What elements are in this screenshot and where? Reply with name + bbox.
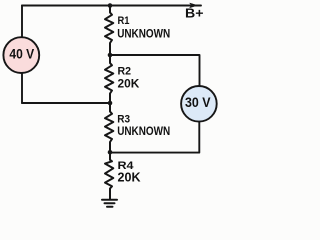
svg-text:UNKNOWN: UNKNOWN bbox=[117, 124, 170, 138]
battery V2 30V bbox=[181, 86, 217, 122]
wire 30V bottom to node C wire bbox=[110, 122, 199, 153]
node B junction bbox=[108, 101, 113, 106]
node A junction bbox=[108, 53, 113, 58]
wire node A to 30V top bbox=[110, 55, 200, 86]
wire left vertical top bbox=[21, 6, 23, 38]
ground bbox=[102, 200, 117, 207]
resistor R2 bbox=[105, 55, 113, 103]
resistor R3 bbox=[105, 103, 113, 152]
svg-text:40 V: 40 V bbox=[9, 45, 34, 61]
svg-text:30 V: 30 V bbox=[185, 94, 211, 110]
svg-text:R1: R1 bbox=[118, 15, 130, 27]
node C junction bbox=[108, 150, 113, 155]
wire top rail B+ bbox=[22, 5, 201, 7]
node top junction bbox=[108, 3, 113, 8]
battery V1 40V bbox=[3, 37, 39, 73]
svg-text:UNKNOWN: UNKNOWN bbox=[117, 27, 170, 41]
svg-text:20K: 20K bbox=[118, 170, 142, 185]
resistor R4 bbox=[105, 152, 113, 199]
arrowhead B+ bbox=[190, 3, 198, 8]
svg-text:20K: 20K bbox=[118, 77, 140, 91]
wire left vertical bottom bbox=[21, 74, 23, 104]
svg-text:B+: B+ bbox=[185, 6, 204, 21]
resistor R1 bbox=[105, 6, 113, 56]
wire 40V to node B bbox=[22, 102, 110, 104]
